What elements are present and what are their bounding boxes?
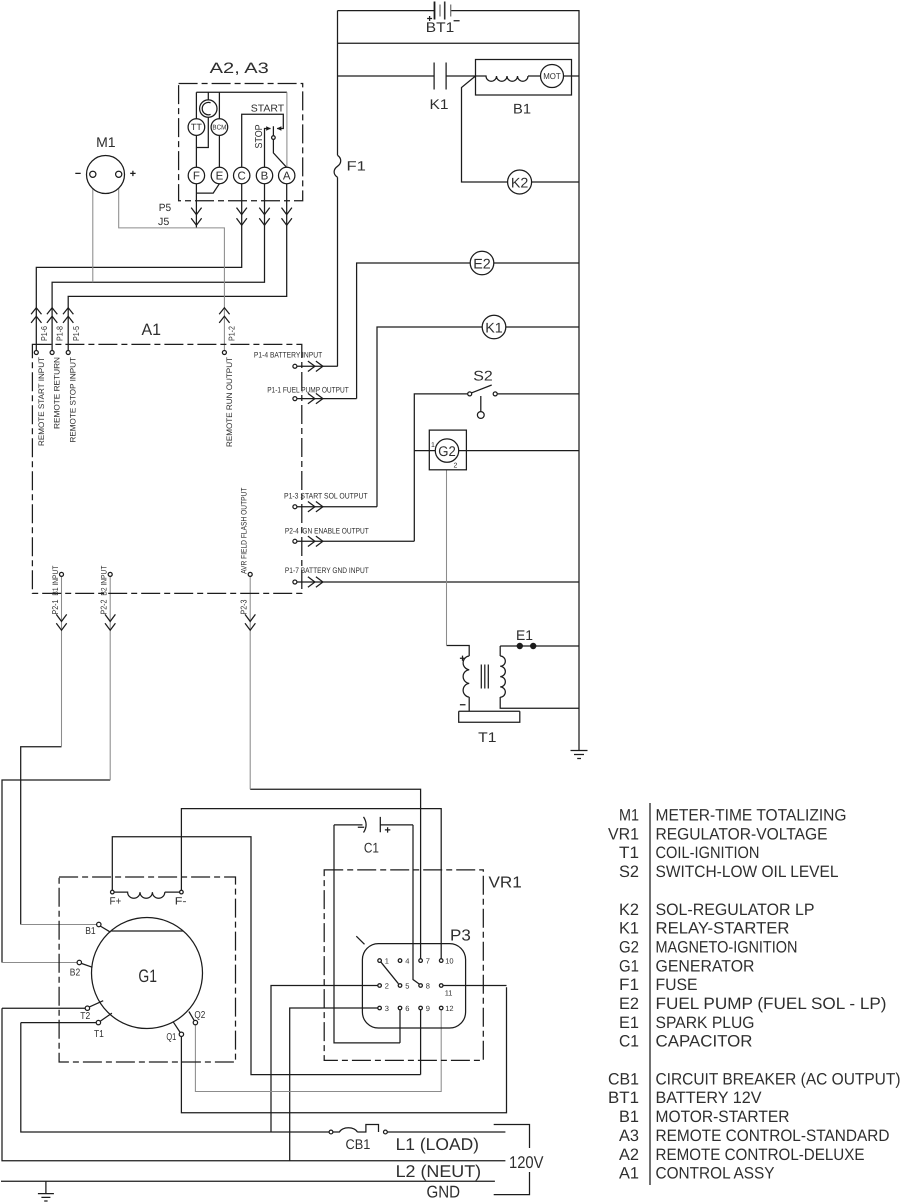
- svg-text:9: 9: [426, 1004, 430, 1013]
- svg-text:T1: T1: [619, 844, 639, 862]
- svg-text:P1-5: P1-5: [71, 326, 81, 341]
- svg-text:SOL-REGULATOR LP: SOL-REGULATOR LP: [656, 901, 815, 919]
- svg-text:P2-4 IGN ENABLE OUTPUT: P2-4 IGN ENABLE OUTPUT: [285, 526, 369, 535]
- svg-text:BATTERY 12V: BATTERY 12V: [656, 1089, 762, 1107]
- svg-text:REMOTE CONTROL-STANDARD: REMOTE CONTROL-STANDARD: [656, 1127, 890, 1145]
- svg-text:B1: B1: [85, 926, 96, 937]
- svg-text:4: 4: [405, 957, 409, 966]
- svg-text:REMOTE RETURN: REMOTE RETURN: [53, 357, 62, 429]
- svg-text:S2: S2: [619, 863, 639, 881]
- svg-text:CB1: CB1: [608, 1070, 639, 1088]
- svg-text:MOT: MOT: [543, 71, 561, 81]
- svg-text:J5: J5: [158, 216, 169, 228]
- svg-text:B1 INPUT: B1 INPUT: [51, 566, 60, 596]
- svg-text:STOP: STOP: [254, 124, 265, 148]
- svg-text:K2: K2: [619, 901, 639, 919]
- svg-text:A3: A3: [619, 1127, 639, 1145]
- svg-text:SWITCH-LOW OIL LEVEL: SWITCH-LOW OIL LEVEL: [656, 863, 839, 881]
- svg-text:3: 3: [385, 1004, 389, 1013]
- svg-text:TT: TT: [191, 122, 202, 132]
- svg-text:S2: S2: [473, 367, 493, 383]
- svg-text:GND: GND: [427, 1182, 461, 1201]
- svg-text:E2: E2: [473, 255, 491, 271]
- svg-text:P2-3: P2-3: [239, 599, 249, 614]
- svg-text:A2, A3: A2, A3: [210, 60, 269, 77]
- svg-text:P1-4 BATTERY INPUT: P1-4 BATTERY INPUT: [254, 350, 322, 359]
- svg-text:1: 1: [385, 957, 389, 966]
- svg-text:B: B: [261, 171, 269, 183]
- svg-text:Q1: Q1: [166, 1032, 176, 1043]
- svg-text:B1: B1: [619, 1108, 639, 1126]
- svg-text:B2 INPUT: B2 INPUT: [100, 566, 109, 596]
- svg-text:T1: T1: [94, 1029, 104, 1040]
- svg-text:A: A: [283, 171, 291, 183]
- svg-text:P2-2: P2-2: [99, 599, 109, 614]
- svg-text:G1: G1: [138, 966, 157, 986]
- svg-text:BT1: BT1: [426, 19, 455, 35]
- svg-text:F1: F1: [619, 976, 639, 994]
- svg-text:6: 6: [405, 1004, 409, 1013]
- svg-text:A1: A1: [619, 1165, 639, 1183]
- svg-text:G2: G2: [619, 939, 639, 957]
- svg-text:E1: E1: [619, 1014, 639, 1032]
- svg-text:B1: B1: [513, 101, 531, 117]
- svg-text:10: 10: [445, 957, 453, 966]
- svg-text:P1-7 BATTERY GND INPUT: P1-7 BATTERY GND INPUT: [285, 566, 369, 575]
- svg-text:P2-1: P2-1: [50, 599, 60, 614]
- svg-text:AVR FIELD FLASH OUTPUT: AVR FIELD FLASH OUTPUT: [240, 487, 249, 573]
- svg-text:SPARK PLUG: SPARK PLUG: [656, 1014, 755, 1032]
- svg-text:K1: K1: [430, 96, 449, 112]
- svg-text:E: E: [216, 171, 224, 183]
- svg-text:RELAY-STARTER: RELAY-STARTER: [656, 920, 790, 938]
- svg-text:BCM: BCM: [212, 125, 226, 132]
- svg-text:CAPACITOR: CAPACITOR: [656, 1033, 753, 1051]
- svg-text:REMOTE START INPUT: REMOTE START INPUT: [37, 357, 46, 446]
- svg-text:B2: B2: [70, 967, 81, 978]
- svg-text:CONTROL ASSY: CONTROL ASSY: [656, 1165, 775, 1183]
- svg-text:P1-8: P1-8: [55, 326, 65, 341]
- svg-text:11: 11: [445, 989, 453, 998]
- svg-text:CIRCUIT BREAKER (AC OUTPUT): CIRCUIT BREAKER (AC OUTPUT): [656, 1070, 900, 1088]
- svg-text:F1: F1: [347, 159, 366, 174]
- svg-text:G1: G1: [619, 957, 639, 975]
- svg-text:P5: P5: [159, 202, 172, 214]
- svg-text:T1: T1: [478, 729, 497, 745]
- svg-text:G2: G2: [438, 443, 456, 459]
- svg-text:FUEL PUMP (FUEL SOL - LP): FUEL PUMP (FUEL SOL - LP): [656, 995, 887, 1013]
- svg-text:C: C: [238, 171, 246, 183]
- svg-text:C1: C1: [619, 1033, 639, 1051]
- svg-text:FUSE: FUSE: [656, 976, 698, 994]
- svg-text:START: START: [251, 104, 284, 115]
- svg-text:VR1: VR1: [489, 875, 522, 892]
- svg-text:E2: E2: [619, 995, 639, 1013]
- svg-text:M1: M1: [619, 807, 639, 825]
- svg-text:L1 (LOAD): L1 (LOAD): [396, 1135, 479, 1154]
- svg-text:P3: P3: [450, 928, 471, 945]
- svg-text:GENERATOR: GENERATOR: [656, 957, 755, 975]
- svg-text:VR1: VR1: [608, 825, 639, 843]
- svg-text:REMOTE STOP INPUT: REMOTE STOP INPUT: [69, 357, 78, 443]
- svg-text:L2 (NEUT): L2 (NEUT): [396, 1162, 482, 1181]
- svg-text:1: 1: [431, 442, 435, 449]
- svg-text:REMOTE CONTROL-DELUXE: REMOTE CONTROL-DELUXE: [656, 1146, 865, 1164]
- svg-text:P1-6: P1-6: [39, 326, 49, 341]
- svg-text:K2: K2: [511, 174, 529, 190]
- svg-text:C1: C1: [364, 840, 379, 856]
- svg-text:P1-1 FUEL PUMP OUTPUT: P1-1 FUEL PUMP OUTPUT: [267, 385, 349, 394]
- svg-text:F-: F-: [175, 895, 187, 907]
- svg-text:F+: F+: [110, 895, 122, 907]
- svg-text:M1: M1: [96, 134, 116, 150]
- svg-text:MAGNETO-IGNITION: MAGNETO-IGNITION: [656, 939, 798, 957]
- svg-text:BT1: BT1: [608, 1089, 639, 1107]
- svg-text:F: F: [193, 171, 200, 183]
- svg-text:METER-TIME TOTALIZING: METER-TIME TOTALIZING: [656, 807, 847, 825]
- svg-text:5: 5: [405, 982, 409, 991]
- svg-text:8: 8: [426, 982, 430, 991]
- svg-text:T2: T2: [80, 1011, 90, 1022]
- svg-text:MOTOR-STARTER: MOTOR-STARTER: [656, 1108, 790, 1126]
- svg-text:Q2: Q2: [194, 1010, 205, 1021]
- svg-text:K1: K1: [619, 920, 639, 938]
- svg-text:E1: E1: [516, 627, 533, 643]
- svg-text:P1-3 START SOL OUTPUT: P1-3 START SOL OUTPUT: [284, 492, 368, 501]
- svg-text:2: 2: [385, 982, 389, 991]
- svg-text:COIL-IGNITION: COIL-IGNITION: [656, 844, 760, 862]
- svg-text:2: 2: [454, 463, 458, 470]
- svg-text:7: 7: [426, 957, 430, 966]
- svg-text:REGULATOR-VOLTAGE: REGULATOR-VOLTAGE: [656, 825, 828, 843]
- svg-text:K1: K1: [485, 319, 503, 335]
- svg-text:A1: A1: [142, 321, 162, 339]
- svg-text:12: 12: [445, 1004, 453, 1013]
- svg-text:CB1: CB1: [346, 1136, 371, 1152]
- svg-text:REMOTE RUN OUTPUT: REMOTE RUN OUTPUT: [225, 357, 234, 447]
- svg-text:A2: A2: [619, 1146, 639, 1164]
- svg-text:120V: 120V: [509, 1153, 544, 1172]
- svg-text:P1-2: P1-2: [227, 326, 237, 341]
